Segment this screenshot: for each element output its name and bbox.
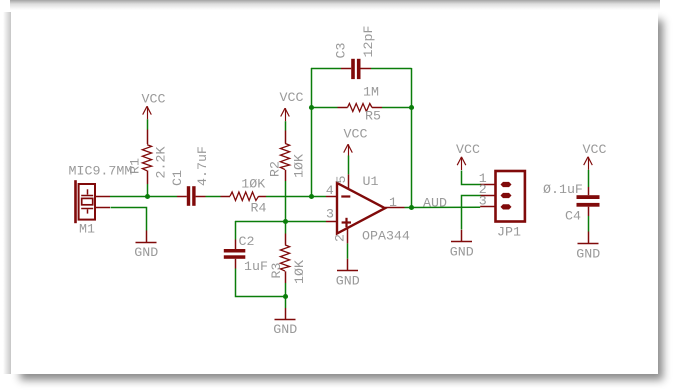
wire C4 to ground [588, 216, 590, 232]
JP1 pin 3 glyph [480, 204, 511, 209]
op-amp pin 5 lead [348, 174, 350, 189]
svg-text:M1: M1 [79, 222, 95, 237]
capacitor C1 [187, 186, 196, 206]
node junction output [409, 205, 414, 210]
power VCC (U1 pin5) [344, 144, 353, 155]
power VCC (R2) [281, 108, 290, 121]
svg-text:1ØK: 1ØK [291, 154, 306, 178]
svg-text:GND: GND [134, 245, 158, 260]
op-amp pin 1 lead [385, 207, 405, 209]
svg-text:GND: GND [336, 274, 360, 289]
svg-text:OPA344: OPA344 [362, 228, 410, 243]
capacitor C3 [351, 59, 360, 79]
svg-text:4.7uF: 4.7uF [195, 146, 210, 186]
svg-text:MIC9.7MM: MIC9.7MM [69, 164, 133, 179]
wire R2 down across to bias node [285, 181, 287, 221]
op-amp U1 triangle [337, 183, 385, 234]
svg-text:GND: GND [273, 322, 297, 337]
svg-text:1M: 1M [363, 85, 379, 100]
wire R4 to op-amp input [266, 196, 326, 198]
svg-text:C2: C2 [239, 234, 255, 249]
svg-text:GND: GND [450, 244, 474, 259]
node junction feedback/input [309, 194, 314, 199]
wire feedback left vertical [311, 68, 313, 196]
svg-text:R2: R2 [267, 161, 282, 177]
op-amp plus mark [342, 218, 351, 227]
svg-text:1ØK: 1ØK [292, 260, 307, 284]
wire mic pin2 to ground [111, 208, 147, 231]
ground GND (R3) [275, 308, 296, 320]
wire VCC to C4 [588, 170, 590, 187]
power VCC (R1) [143, 106, 152, 119]
wire JP1 pin2 to GND [462, 196, 481, 230]
svg-text:AUD: AUD [423, 196, 447, 211]
svg-text:VCC: VCC [456, 142, 480, 157]
ground GND (M1) [136, 231, 157, 243]
op-amp pin 4 lead [326, 196, 337, 198]
svg-text:2: 2 [333, 234, 348, 242]
svg-text:4: 4 [326, 183, 334, 198]
svg-text:GND: GND [576, 246, 600, 261]
op-amp pin 3 lead [326, 221, 337, 223]
wire VCC to R2 [285, 121, 287, 130]
node junction bias [283, 219, 288, 224]
svg-text:JP1: JP1 [497, 224, 521, 239]
wire VCC to R1 [147, 119, 149, 129]
svg-text:VCC: VCC [142, 92, 166, 107]
wire bias node to op-amp + input [235, 221, 326, 223]
wire pin2 to ground [347, 243, 349, 258]
op-amp pin 2 lead [347, 228, 349, 243]
svg-text:3: 3 [326, 207, 334, 222]
node junction C2/R3 ground tie [283, 294, 288, 299]
capacitor C4 [577, 195, 600, 207]
svg-text:R1: R1 [128, 158, 143, 174]
node junction feedback right [409, 105, 414, 110]
ground GND (U1 pin2) [337, 259, 358, 271]
svg-text:VCC: VCC [344, 127, 368, 142]
node junction feedback left [309, 105, 314, 110]
wire JP1 pin1 to VCC [462, 171, 481, 185]
ground GND (JP1) [451, 230, 472, 242]
resistor R2 [280, 131, 289, 182]
node junction at R1/C1 [145, 194, 150, 199]
svg-text:1uF: 1uF [244, 259, 268, 274]
svg-text:R3: R3 [269, 263, 284, 279]
connector JP1 body [496, 171, 525, 222]
svg-text:C4: C4 [565, 209, 581, 224]
wire R3 to ground [285, 283, 287, 308]
power VCC (JP1) [457, 157, 466, 170]
svg-text:1: 1 [389, 195, 397, 210]
white page with drop shadow [3, 12, 11, 374]
svg-text:Ø.1uF: Ø.1uF [543, 182, 583, 197]
wire C2 to ground rail [236, 269, 286, 297]
svg-text:VCC: VCC [583, 142, 607, 157]
wire down to C2 [235, 221, 237, 240]
wire feedback top run [311, 68, 341, 70]
JP1 pin 1 glyph [480, 182, 511, 187]
microphone M1 body [74, 180, 110, 223]
wire C1 to R4 [206, 196, 221, 198]
power VCC (C4) [584, 157, 593, 170]
svg-text:U1: U1 [363, 174, 379, 189]
svg-text:R5: R5 [365, 109, 381, 124]
svg-text:5: 5 [334, 176, 349, 184]
svg-text:2.2K: 2.2K [154, 147, 169, 179]
JP1 pin 2 glyph [480, 193, 511, 198]
ground GND (C4) [578, 232, 599, 244]
resistor R5 [311, 107, 338, 109]
capacitor C2 [224, 249, 246, 259]
wire R1 to junction [147, 184, 149, 196]
svg-text:1ØK: 1ØK [241, 176, 265, 191]
wire feedback right vertical [411, 68, 413, 208]
svg-text:R4: R4 [251, 201, 267, 216]
top shadow band (from element above, cropped) [10, 0, 660, 10]
resistor R1 [142, 130, 151, 185]
svg-text:C3: C3 [334, 43, 349, 59]
svg-text:12pF: 12pF [361, 26, 376, 58]
svg-text:VCC: VCC [280, 90, 304, 105]
svg-text:C1: C1 [170, 170, 185, 186]
resistor R3 [285, 221, 287, 234]
wire mic output to C1 [110, 196, 177, 198]
wire output to JP1 (net AUD) [405, 206, 481, 208]
op-amp minus mark [341, 195, 350, 197]
resistor R4 [221, 192, 267, 201]
wire VCC to pin5 [348, 156, 350, 175]
